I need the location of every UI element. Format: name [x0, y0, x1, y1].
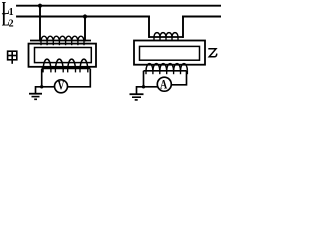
svg-text:2: 2 [9, 18, 14, 29]
svg-text:V: V [58, 79, 65, 93]
svg-text:A: A [160, 78, 168, 91]
